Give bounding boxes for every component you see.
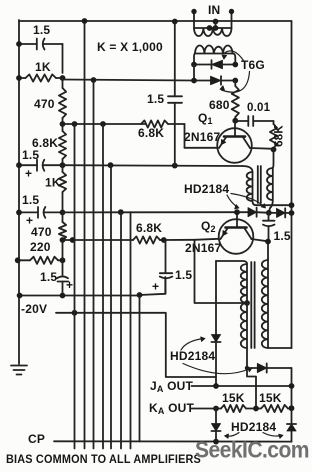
- svg-text:1.5: 1.5: [22, 193, 39, 207]
- resistor R1 1K (horizontal): [26, 74, 57, 81]
- wire Q2 node down to T3 tap: [195, 240, 248, 303]
- resistor R5 470 (vertical): [59, 222, 66, 240]
- resistor R8 68K (vertical): [270, 124, 277, 148]
- svg-text:BIAS COMMON TO ALL AMPLIFIERS: BIAS COMMON TO ALL AMPLIFIERS: [6, 454, 201, 466]
- wire bus line 7: [130, 212, 132, 448]
- svg-text:+: +: [25, 167, 32, 181]
- diode D1 T6G (points left): [194, 64, 211, 66]
- svg-text:6.8K: 6.8K: [138, 126, 164, 140]
- wire row E long line to Q2 diode row: [63, 211, 238, 213]
- transformer T2 left winding: [242, 166, 252, 172]
- svg-text:15K: 15K: [259, 391, 282, 405]
- wire -20V rail line1: [20, 295, 140, 297]
- resistor R10 6.8K (horizontal): [133, 236, 160, 243]
- arrow HD2184 to D4: [231, 194, 265, 208]
- capacitor C3 1.5 polarized (row E): [19, 211, 38, 213]
- svg-text:68K: 68K: [274, 125, 286, 147]
- capacitor C8 1.5 polarized (below 6.8K): [165, 240, 167, 273]
- diode D2 T6G (points right): [194, 80, 211, 82]
- wire bus line 4: [102, 124, 104, 449]
- svg-text:Q2: Q2: [201, 219, 216, 234]
- capacitor C4 1.5 polarized (row H, on column): [62, 260, 64, 275]
- svg-text:680: 680: [209, 98, 230, 112]
- arrow HD2184 to D7: [226, 433, 239, 437]
- svg-text:Q1: Q1: [198, 111, 213, 126]
- svg-text:0.01: 0.01: [247, 102, 271, 114]
- diode D5 HD2184 (points down): [211, 335, 220, 343]
- arrow T6G to D1: [224, 51, 244, 61]
- wire V8 vertical: [139, 295, 141, 442]
- svg-text:IN: IN: [208, 3, 220, 17]
- resistor R9 6.8K (horizontal): [141, 120, 168, 127]
- svg-text:6.8K: 6.8K: [136, 221, 162, 235]
- wire right rail upper: [291, 21, 293, 348]
- wire T3 right bottom to rail: [268, 347, 292, 349]
- svg-text:HD2184: HD2184: [231, 420, 276, 434]
- svg-text:+: +: [152, 280, 159, 294]
- diode D8 HD2184 (points up): [287, 424, 296, 431]
- wire row D long line to T2: [63, 164, 243, 167]
- capacitor C1 1.5 (top left): [19, 43, 37, 45]
- wire diode box left vertical: [193, 65, 195, 81]
- wire JA line: [192, 385, 292, 387]
- capacitor C6 1.5 (coupling, x=175): [174, 22, 176, 97]
- arrow HD2184 to D3: [227, 195, 238, 208]
- svg-text:HD2184: HD2184: [170, 349, 215, 363]
- diode D7 HD2184 (points down): [211, 424, 220, 432]
- svg-text:HD2184: HD2184: [184, 182, 229, 196]
- svg-text:1.5: 1.5: [40, 270, 57, 284]
- svg-text:KA OUT: KA OUT: [149, 401, 195, 416]
- transformer T2 core: [257, 166, 259, 203]
- wire CP line: [54, 440, 292, 442]
- resistor R6 220 (horizontal): [30, 257, 58, 264]
- svg-text:JA OUT: JA OUT: [150, 379, 194, 394]
- svg-text:2N167: 2N167: [185, 241, 221, 255]
- wire D5 vertical: [215, 261, 217, 335]
- arrow HD2184 to D6: [183, 364, 250, 374]
- wire right rail lower: [291, 368, 293, 442]
- resistor R7 680 (vertical): [234, 81, 236, 87]
- svg-text:1K: 1K: [45, 176, 61, 190]
- arrow HD2184 to D8: [263, 433, 281, 437]
- wire left rail: [18, 20, 20, 364]
- svg-text:1.5: 1.5: [22, 148, 39, 162]
- svg-text:1.5: 1.5: [274, 229, 291, 243]
- wire -20V line2: [56, 313, 216, 377]
- capacitor C7 1.5 (right of Q2): [268, 213, 270, 221]
- svg-text:15K: 15K: [222, 391, 245, 405]
- wire T3 left bottom to K-line: [247, 348, 256, 409]
- wire bus line 1: [74, 124, 76, 449]
- svg-text:K = X 1,000: K = X 1,000: [97, 40, 163, 54]
- svg-text:CP: CP: [28, 432, 45, 446]
- wire row F to 6.8K: [63, 239, 134, 241]
- svg-text:1K: 1K: [35, 60, 51, 74]
- transformer T3 right winding: [262, 260, 268, 348]
- transformer T2 right winding: [272, 150, 275, 169]
- wire node row C: [63, 123, 147, 125]
- wire C1 to column: [62, 44, 64, 73]
- transformer T3 left winding: [216, 261, 247, 264]
- resistor R11 15K: [221, 405, 246, 412]
- capacitor C5 0.01: [235, 120, 248, 122]
- wire top rail: [19, 20, 292, 22]
- wire Q2 right to T3 right winding: [267, 242, 269, 260]
- svg-text:470: 470: [31, 225, 52, 239]
- wire bus line 2: [84, 21, 86, 449]
- svg-text:1.5: 1.5: [175, 268, 192, 282]
- transistor Q1 2N167: [217, 128, 252, 163]
- svg-text:1.5: 1.5: [33, 23, 50, 37]
- svg-text:SeekIC.com: SeekIC.com: [195, 437, 309, 463]
- wire bus line 5: [110, 165, 112, 448]
- svg-text:470: 470: [34, 97, 55, 111]
- diode D4 HD2184 (points right): [277, 208, 286, 217]
- svg-text:220: 220: [30, 240, 51, 254]
- wire bus line 3: [93, 80, 95, 449]
- resistor R4 1K (vertical): [59, 172, 66, 192]
- svg-text:T6G: T6G: [241, 58, 265, 72]
- transformer T3 core: [250, 262, 252, 348]
- ground: [11, 365, 27, 367]
- capacitor C2 1.5 polarized (row D): [19, 164, 37, 166]
- wire T2 left bottom to right rail: [256, 204, 292, 206]
- wire Q1 base path from 6.8K: [184, 124, 186, 148]
- wire KA line left: [192, 408, 222, 410]
- diode D6 HD2184 (points right): [247, 367, 257, 369]
- transistor Q2 2N167: [219, 219, 254, 254]
- wire node row B to diode row: [63, 80, 195, 81]
- resistor R12 15K: [246, 408, 261, 410]
- arrow T6G to D2: [222, 72, 250, 93]
- svg-text:+: +: [66, 278, 73, 292]
- diode D3 HD2184 (points right): [237, 211, 248, 213]
- transformer T1 secondary: [195, 45, 233, 53]
- wire bus line 6: [120, 212, 122, 448]
- arrow HD2184 to D5: [181, 339, 203, 351]
- svg-text:1.5: 1.5: [147, 92, 164, 106]
- svg-text:2N167: 2N167: [184, 130, 220, 144]
- resistor R3 6.8K (vertical): [59, 131, 66, 159]
- transformer T1 primary: [193, 13, 195, 29]
- resistor R2 470 (vertical): [59, 88, 66, 118]
- svg-text:-20V: -20V: [21, 302, 47, 316]
